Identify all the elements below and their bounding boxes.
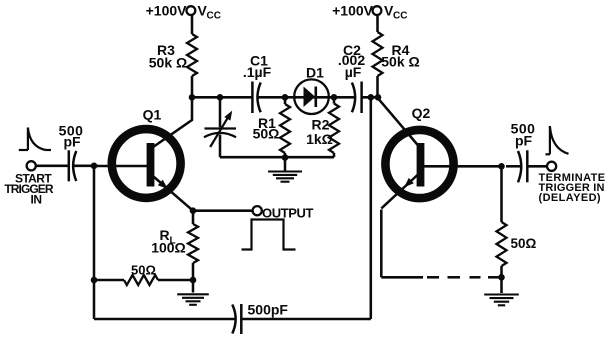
svg-text:(DELAYED): (DELAYED)	[539, 192, 601, 204]
svg-text:50Ω: 50Ω	[511, 236, 537, 251]
svg-text:pF: pF	[63, 134, 81, 150]
svg-text:1kΩ: 1kΩ	[306, 131, 333, 147]
svg-text:CC: CC	[207, 11, 221, 22]
svg-text:+100V: +100V	[332, 3, 374, 19]
svg-text:CC: CC	[393, 11, 407, 22]
svg-text:pF: pF	[515, 133, 533, 149]
svg-text:D1: D1	[306, 65, 324, 81]
svg-text:IN: IN	[31, 193, 42, 207]
svg-text:Q1: Q1	[143, 107, 162, 123]
svg-text:+100V: +100V	[146, 3, 188, 19]
svg-text:50k Ω: 50k Ω	[381, 54, 419, 70]
svg-text:µF: µF	[345, 64, 362, 80]
svg-text:50k Ω: 50k Ω	[149, 55, 187, 71]
svg-text:500pF: 500pF	[248, 302, 289, 318]
svg-text:50Ω: 50Ω	[253, 126, 280, 142]
svg-text:100Ω: 100Ω	[151, 240, 186, 256]
svg-text:50Ω: 50Ω	[131, 263, 156, 278]
svg-text:.1µF: .1µF	[243, 64, 272, 80]
svg-text:Q2: Q2	[412, 105, 431, 121]
svg-text:TRIGGER: TRIGGER	[4, 182, 54, 196]
svg-text:OUTPUT: OUTPUT	[262, 206, 314, 221]
